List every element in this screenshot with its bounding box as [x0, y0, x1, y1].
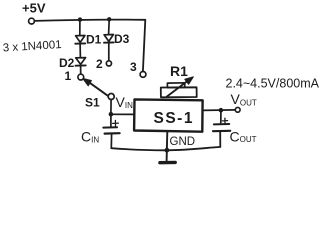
diode D3 — [104, 35, 114, 43]
svg-text:2.4~4.5V/800mA: 2.4~4.5V/800mA — [226, 77, 320, 91]
switch S1 wiper arm — [88, 81, 108, 96]
wire VIN junction to module input — [111, 113, 135, 115]
terminal VOUT — [235, 107, 240, 112]
capacitor CIN polarity plus — [113, 120, 119, 126]
switch contact 1 — [78, 74, 84, 80]
svg-text:D1: D1 — [86, 33, 102, 47]
wire module output to VOUT — [203, 109, 236, 112]
svg-text:VOUT: VOUT — [231, 91, 257, 108]
wire VIN down to junction — [110, 100, 112, 113]
wire D3 cathode to contact 2 — [108, 43, 110, 61]
svg-text:CIN: CIN — [81, 129, 99, 145]
wire D1 anode — [79, 20, 81, 36]
wire top rail from +5V to contact 3 — [35, 20, 146, 72]
terminal VIN — [108, 94, 114, 100]
rheostat R1 arrowhead — [185, 77, 193, 84]
ground symbol — [160, 161, 175, 165]
svg-text:S1: S1 — [85, 96, 100, 110]
node junction D3 branch — [107, 17, 111, 21]
rheostat R1 body lower — [161, 87, 197, 97]
switch contact 3 — [140, 72, 146, 78]
diode D1 — [75, 36, 85, 44]
wire CIN to ground rail — [110, 134, 112, 148]
capacitor COUT — [213, 124, 230, 131]
node junction VIN — [109, 112, 114, 117]
svg-text:+5V: +5V — [22, 1, 46, 16]
switch S1 wiper arrowhead — [83, 79, 91, 86]
capacitor CIN — [103, 127, 119, 133]
node junction ground — [165, 148, 170, 153]
wire VIN junction down to CIN — [110, 116, 112, 127]
svg-text:GND: GND — [170, 136, 196, 148]
svg-text:VIN: VIN — [116, 94, 134, 110]
wire COUT to ground rail — [219, 132, 221, 147]
ground rail bottom — [111, 147, 220, 150]
svg-text:3 x 1N4001: 3 x 1N4001 — [2, 39, 61, 54]
svg-text:COUT: COUT — [230, 128, 257, 144]
switch contact 2 — [106, 61, 111, 66]
svg-text:3: 3 — [130, 60, 137, 74]
diode D2 — [76, 58, 86, 66]
terminal +5V — [29, 18, 35, 24]
wire D1 cathode to D2 anode — [79, 44, 81, 58]
wire GND stem — [166, 132, 169, 161]
capacitor COUT polarity plus — [222, 118, 227, 123]
svg-text:2: 2 — [96, 57, 103, 71]
svg-text:D2: D2 — [59, 56, 75, 70]
svg-text:1: 1 — [65, 69, 72, 83]
rheostat R1 body upper — [167, 83, 184, 88]
regulator module SS-1 box — [134, 99, 203, 131]
wire junction down to COUT — [220, 112, 222, 123]
wire D2 cathode to contact 1 — [80, 66, 82, 74]
node junction COUT — [219, 108, 224, 113]
node junction D1 branch — [78, 17, 82, 21]
svg-text:R1: R1 — [170, 63, 188, 79]
svg-text:SS-1: SS-1 — [154, 110, 194, 127]
rheostat R1 arrow shaft — [167, 80, 189, 97]
wire D3 anode — [108, 19, 111, 34]
svg-text:D3: D3 — [114, 32, 130, 46]
